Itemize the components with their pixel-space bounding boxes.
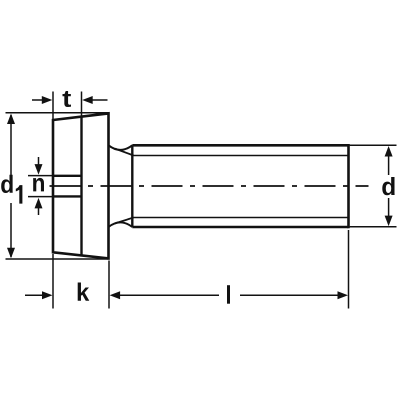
thread runout top <box>115 149 134 156</box>
shank outer bottom line <box>132 226 348 229</box>
l arrow right-pointing <box>338 291 349 299</box>
t arrow right-pointing <box>42 96 53 104</box>
d1 arrow up <box>7 114 15 125</box>
k arrow right-pointing <box>42 291 53 299</box>
under-head fillet bottom <box>109 222 133 227</box>
k extension line left <box>52 254 54 309</box>
label n <box>33 178 44 191</box>
centerline axis <box>50 185 369 187</box>
label k <box>78 282 90 300</box>
t extension line left <box>52 92 54 120</box>
t dimension line right <box>85 99 108 101</box>
k extension line right <box>108 261 110 309</box>
slot depth line <box>80 117 82 256</box>
l extension line right <box>348 230 350 309</box>
thread root bottom line <box>134 217 349 219</box>
d1 top extension line <box>6 112 109 114</box>
slot top extension line <box>28 175 53 177</box>
l dimension line left part <box>118 294 219 296</box>
l arrow left-pointing <box>110 291 121 299</box>
d top extension line <box>350 144 397 146</box>
t extension line right <box>81 92 83 117</box>
d arrow down <box>385 216 393 227</box>
thread root top line <box>134 155 349 157</box>
t dimension line left <box>32 99 50 101</box>
n arrow top <box>38 157 40 166</box>
label d1 <box>1 175 12 193</box>
under-head fillet top <box>109 145 133 150</box>
k dimension line left <box>25 294 42 296</box>
thread start line <box>131 145 133 227</box>
t arrow left-pointing <box>82 96 93 104</box>
thread runout bottom <box>115 218 134 224</box>
n arrow bottom <box>38 207 40 216</box>
label t <box>62 91 70 107</box>
d1 bottom extension line <box>6 258 109 260</box>
d arrow up <box>385 146 393 157</box>
screw end face <box>347 144 350 228</box>
screw head outline <box>53 113 109 258</box>
label d <box>382 177 394 195</box>
d1 dimension line <box>10 115 12 175</box>
slot bottom line <box>53 195 82 197</box>
l dimension line right part <box>240 294 340 296</box>
d1 arrow down <box>7 248 15 258</box>
shank outer top line <box>132 144 348 147</box>
slot top line <box>53 175 82 177</box>
label l <box>227 285 230 303</box>
d bottom extension line <box>350 226 397 228</box>
d dimension line <box>388 148 390 175</box>
slot bottom extension line <box>28 196 53 198</box>
